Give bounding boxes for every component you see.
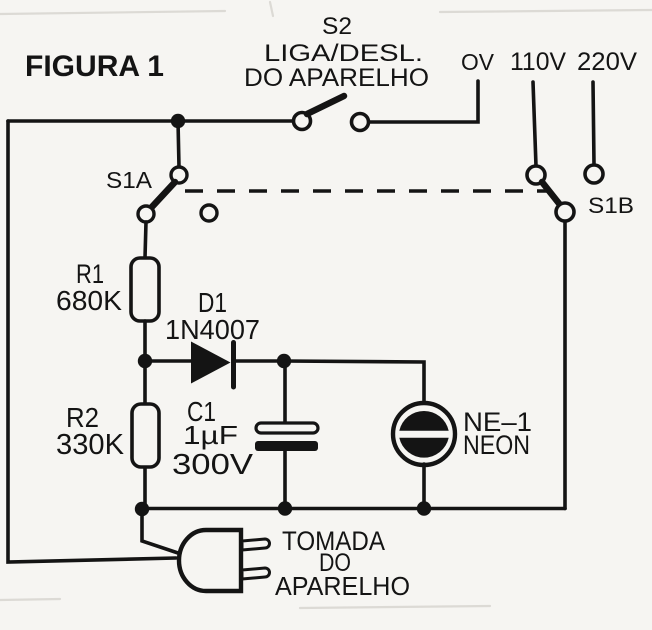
node junction bottom C1 bbox=[278, 501, 292, 515]
diode D1 bbox=[191, 342, 234, 388]
plug prong top bbox=[242, 539, 270, 550]
node junction diode row left bbox=[138, 354, 152, 368]
svg-text:FIGURA 1: FIGURA 1 bbox=[25, 50, 164, 83]
svg-text:LIGA/DESL.: LIGA/DESL. bbox=[264, 40, 423, 67]
wire top rail bbox=[8, 119, 294, 123]
wire R2 bottom lead bbox=[143, 467, 147, 509]
node 220V contact bbox=[585, 165, 603, 183]
wire diode to C1 node bbox=[236, 359, 283, 363]
wire S1A feed bbox=[178, 121, 179, 167]
svg-text:1µF: 1µF bbox=[183, 420, 238, 450]
wire C1 top lead bbox=[283, 361, 287, 423]
dashed select line bbox=[185, 189, 547, 193]
wire diode row bbox=[145, 359, 191, 363]
node junction top bbox=[171, 114, 185, 128]
svg-text:NEON: NEON bbox=[463, 430, 530, 460]
svg-text:APARELHO: APARELHO bbox=[275, 571, 410, 601]
wire bottom rail bbox=[142, 507, 565, 511]
switch S2 bbox=[294, 96, 369, 131]
svg-text:220V: 220V bbox=[577, 48, 637, 76]
svg-text:S2: S2 bbox=[322, 13, 352, 40]
svg-text:S1B: S1B bbox=[588, 193, 634, 218]
svg-text:1N4007: 1N4007 bbox=[165, 314, 260, 345]
svg-text:680K: 680K bbox=[56, 285, 122, 316]
svg-text:OV: OV bbox=[461, 49, 495, 75]
wire S2 to 0V bbox=[369, 81, 478, 122]
svg-text:DO APARELHO: DO APARELHO bbox=[244, 64, 429, 92]
wire 220V lead bbox=[593, 82, 594, 164]
wire plug drop bbox=[142, 508, 178, 553]
wire neon bottom lead bbox=[422, 464, 426, 509]
wire left rail bbox=[8, 121, 176, 562]
svg-text:110V: 110V bbox=[510, 48, 566, 76]
wire R1 to node bbox=[143, 321, 147, 361]
plug TOMADA body bbox=[179, 530, 241, 591]
resistor R1 bbox=[131, 258, 159, 321]
capacitor C1 bbox=[255, 423, 318, 451]
svg-text:330K: 330K bbox=[56, 429, 125, 461]
node junction C1 top bbox=[277, 354, 291, 368]
svg-text:300V: 300V bbox=[172, 449, 254, 481]
node junction bottom neon bbox=[417, 501, 431, 515]
wire 110V lead bbox=[533, 82, 536, 166]
wire to neon top bbox=[283, 361, 424, 404]
wire R2 top lead bbox=[143, 361, 147, 404]
wire C1 bottom lead bbox=[283, 451, 287, 509]
svg-text:S1A: S1A bbox=[106, 167, 153, 193]
resistor R2 bbox=[132, 404, 159, 467]
lamp NE-1 neon bbox=[393, 403, 455, 465]
switch S1A bbox=[138, 167, 217, 222]
wire right rail bbox=[563, 221, 567, 509]
node junction bottom left bbox=[135, 502, 149, 516]
plug prong bottom bbox=[242, 568, 270, 579]
switch S1B bbox=[527, 166, 574, 221]
wire S1A to R1 bbox=[145, 222, 146, 258]
